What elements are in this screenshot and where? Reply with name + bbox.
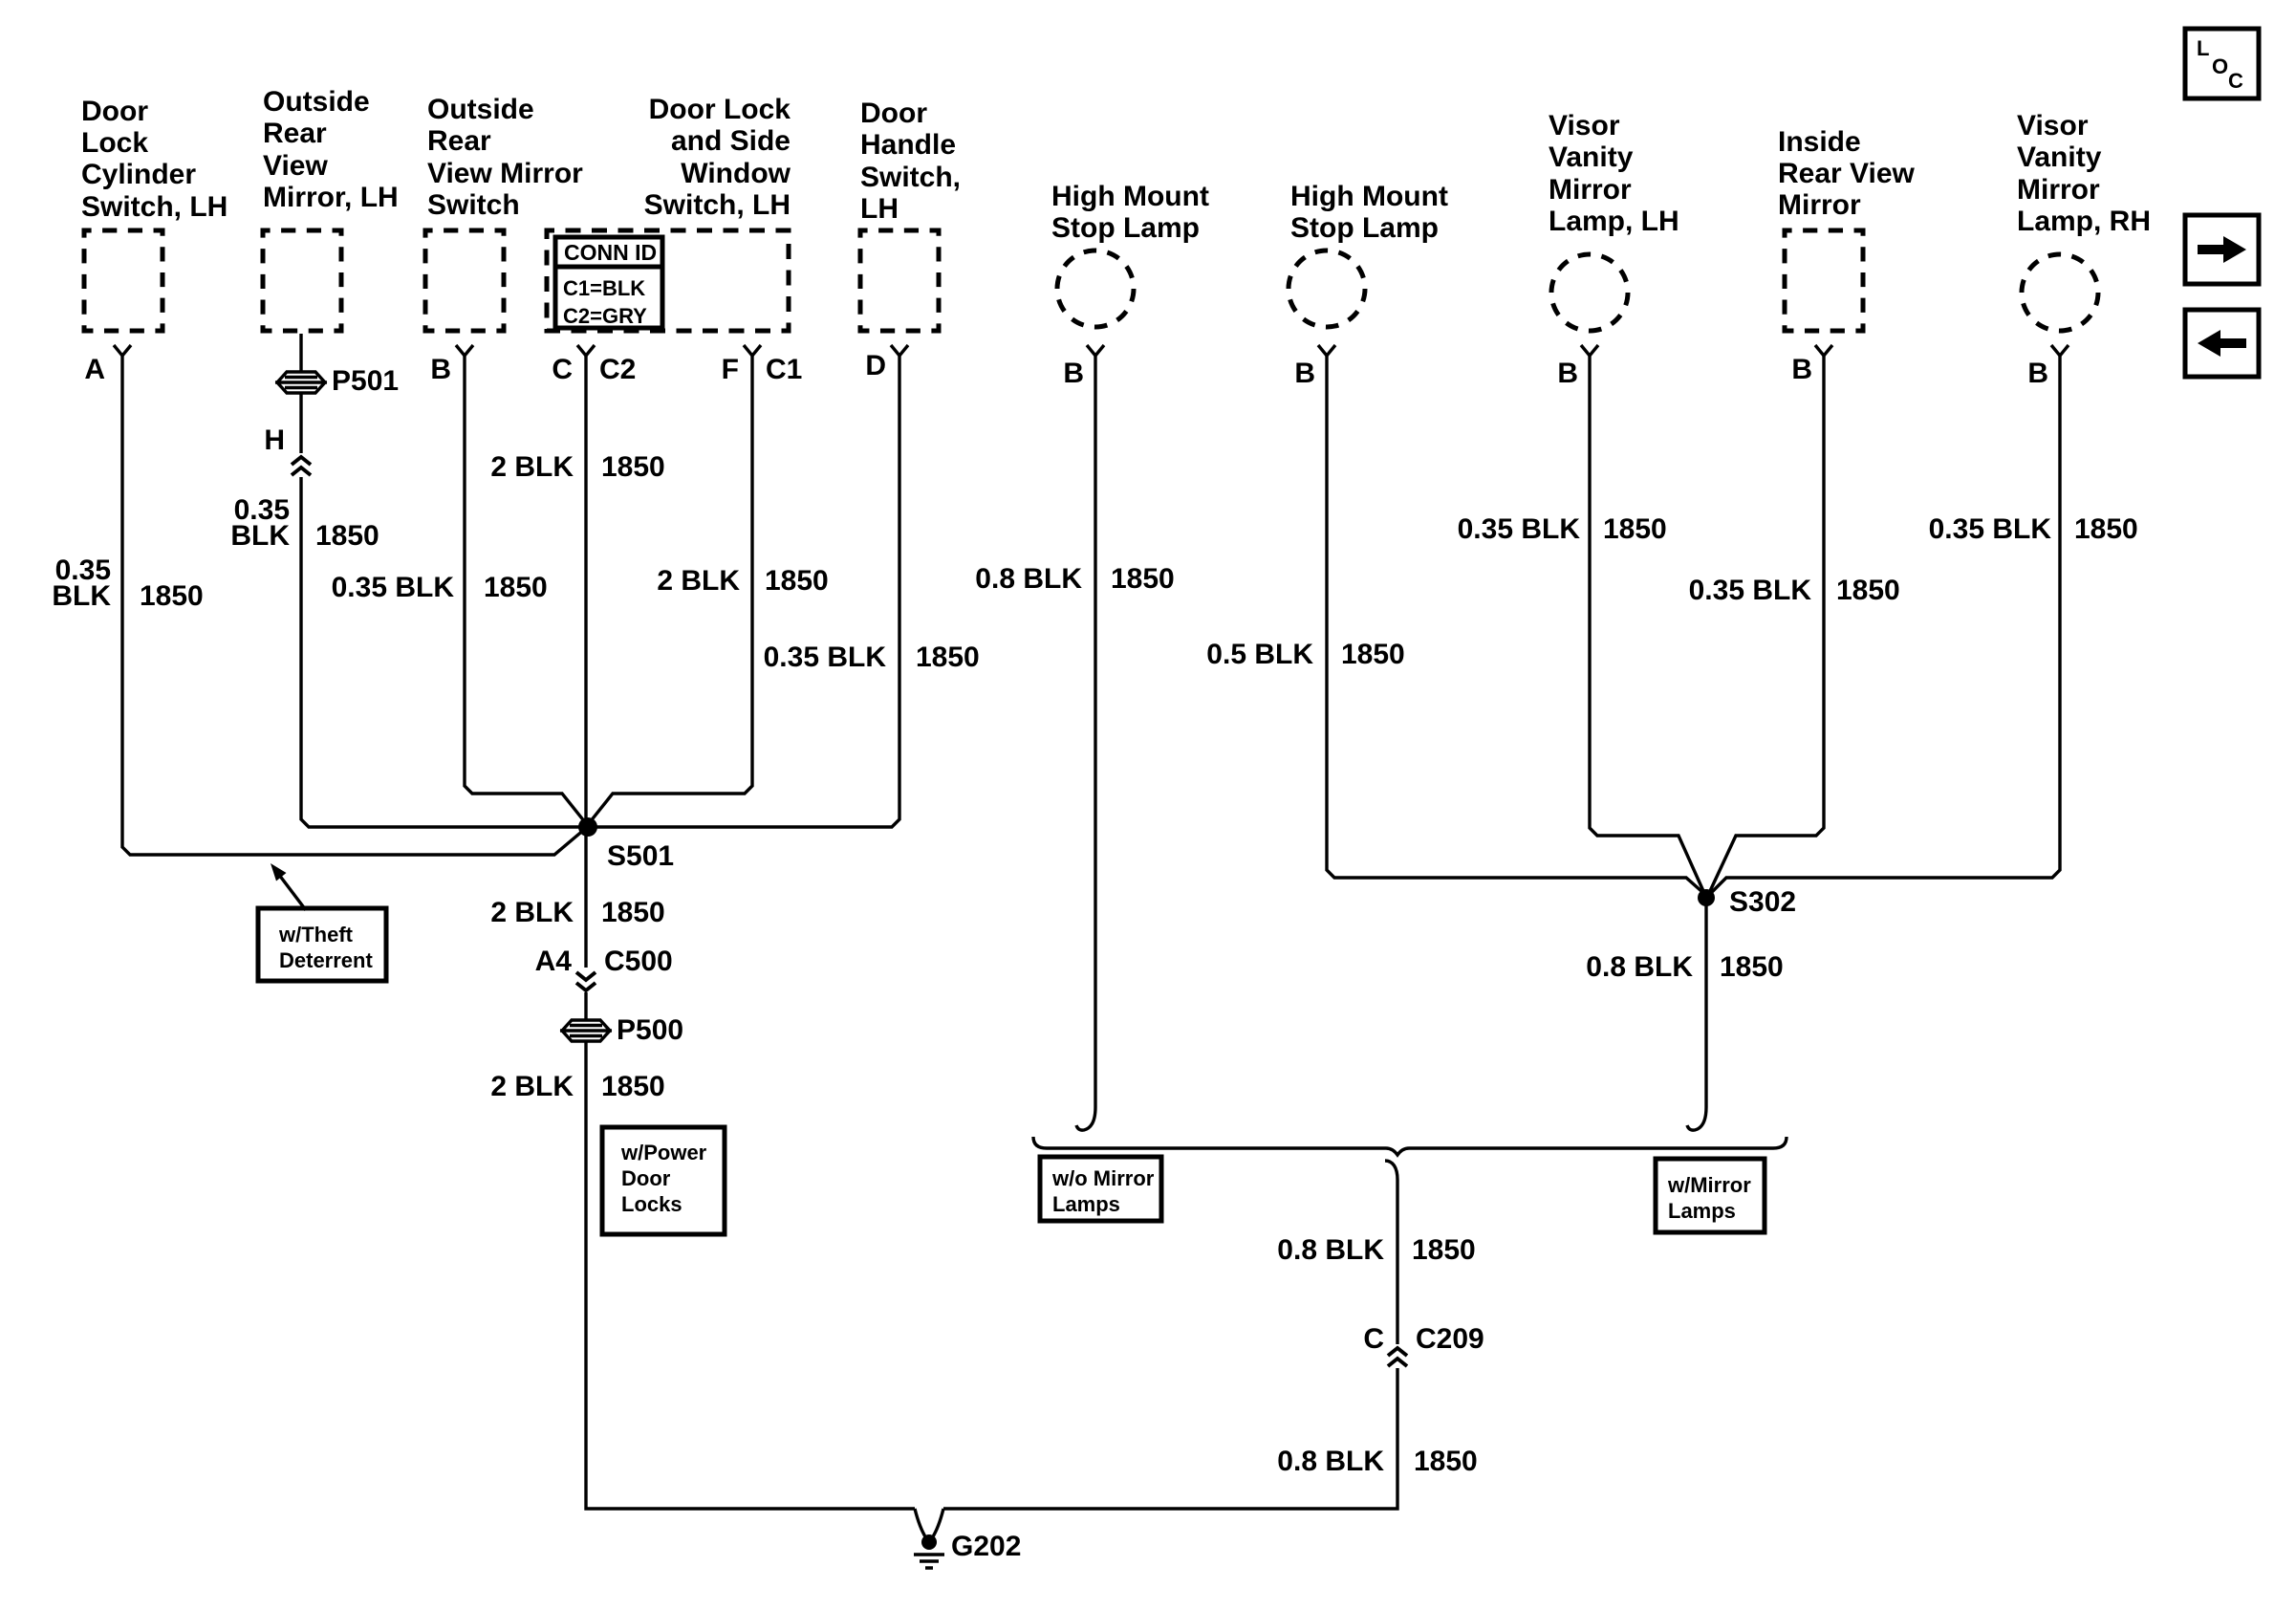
pin A fork	[114, 345, 131, 356]
svg-text:w/Theft: w/Theft	[278, 923, 354, 946]
svg-text:BLK: BLK	[230, 520, 290, 552]
svg-text:C2=GRY: C2=GRY	[563, 304, 647, 328]
svg-text:1850: 1850	[1341, 639, 1405, 670]
pin B fork	[2051, 345, 2069, 356]
svg-text:A: A	[84, 354, 105, 385]
pin B fork	[1087, 345, 1104, 356]
wire H: 0.35 BLK 1850 from Outside Rear View Mirror through P501 to S501	[299, 334, 302, 372]
svg-text:C: C	[2228, 69, 2243, 93]
svg-text:Switch: Switch	[427, 189, 520, 221]
svg-text:0.35 BLK: 0.35 BLK	[1458, 513, 1581, 545]
svg-text:B: B	[1557, 358, 1578, 389]
svg-text:1850: 1850	[601, 451, 665, 483]
splice junction S501	[578, 817, 597, 837]
svg-text:Deterrent: Deterrent	[279, 948, 373, 972]
inline connector P500 (grommet)	[560, 1020, 612, 1041]
lamp dashed circle: High Mount Stop Lamp (right)	[1289, 250, 1365, 327]
pin F fork (connector C1)	[744, 345, 761, 356]
svg-text:Rear: Rear	[263, 118, 327, 149]
svg-text:C2: C2	[599, 354, 636, 385]
svg-text:S501: S501	[607, 840, 674, 872]
note box: w/Theft Deterrent	[258, 908, 386, 981]
svg-text:Visor: Visor	[2017, 110, 2089, 141]
svg-text:1850: 1850	[916, 642, 980, 673]
svg-text:0.8 BLK: 0.8 BLK	[1277, 1446, 1384, 1477]
lamp dashed circle: High Mount Stop Lamp (left)	[1057, 250, 1134, 327]
svg-text:w/Power: w/Power	[620, 1141, 707, 1164]
svg-text:D: D	[865, 350, 886, 381]
ground G202 dot	[921, 1534, 937, 1550]
svg-text:Visor: Visor	[1549, 110, 1620, 141]
wire VRH: 0.35 BLK 1850 from Visor Vanity Mirror Lamp RH to S302	[1711, 356, 2060, 893]
svg-text:Lamp, LH: Lamp, LH	[1549, 206, 1679, 237]
ground symbol bars	[914, 1555, 944, 1568]
svg-text:2 BLK: 2 BLK	[490, 451, 574, 483]
wire from C209 down to ground run	[943, 1368, 1397, 1509]
wire H continues to S501	[301, 477, 586, 827]
svg-text:and Side: and Side	[671, 125, 791, 157]
page icon: arrow left box	[2185, 310, 2259, 377]
note box: w/o Mirror Lamps	[1040, 1157, 1161, 1221]
svg-text:Switch,: Switch,	[860, 162, 961, 193]
wire IRVM: 0.35 BLK 1850 from Inside Rear View Mirror to S302	[1710, 356, 1824, 891]
svg-text:1850: 1850	[315, 520, 379, 552]
svg-text:High Mount: High Mount	[1051, 181, 1209, 212]
svg-text:1850: 1850	[601, 897, 665, 928]
splice junction S302	[1698, 889, 1715, 906]
connector dashed box: Door Lock and Side Window Switch, LH	[547, 230, 789, 331]
svg-text:Door: Door	[621, 1166, 671, 1190]
ground tap at G202	[915, 1509, 926, 1538]
in-line connector C209 chevrons (up)	[1388, 1348, 1407, 1356]
svg-text:1850: 1850	[140, 580, 204, 612]
svg-text:View Mirror: View Mirror	[427, 158, 583, 189]
pin B fork	[1581, 345, 1598, 356]
svg-text:B: B	[1791, 354, 1812, 385]
svg-text:Switch, LH: Switch, LH	[644, 189, 791, 221]
pin C fork (connector C2)	[577, 345, 595, 356]
page icon: arrow right box	[2185, 215, 2259, 284]
svg-text:2 BLK: 2 BLK	[490, 1071, 574, 1102]
arrow from w/Theft Deterrent note to wire A	[279, 875, 306, 910]
svg-text:Mirror: Mirror	[1549, 174, 1632, 206]
svg-text:Handle: Handle	[860, 129, 956, 161]
svg-text:Outside: Outside	[263, 86, 370, 118]
svg-text:A4: A4	[535, 946, 573, 977]
svg-text:1850: 1850	[1836, 575, 1900, 606]
svg-text:0.35 BLK: 0.35 BLK	[1929, 513, 2052, 545]
pin D fork	[891, 345, 908, 356]
svg-text:1850: 1850	[1720, 951, 1784, 983]
in-line connector C500 chevrons (down)	[576, 972, 596, 980]
wire HM1: 0.8 BLK 1850 from High Mount Stop Lamp (left) down to option brace	[1076, 356, 1095, 1130]
svg-text:O: O	[2212, 54, 2228, 78]
svg-text:CONN ID: CONN ID	[564, 240, 657, 265]
svg-text:Door Lock: Door Lock	[649, 94, 791, 125]
svg-text:Lamp, RH: Lamp, RH	[2017, 206, 2151, 237]
svg-text:1850: 1850	[1603, 513, 1667, 545]
svg-text:0.35 BLK: 0.35 BLK	[332, 572, 455, 603]
lamp dashed circle: Visor Vanity Mirror Lamp, LH	[1551, 254, 1628, 331]
wire from P500 down to ground run	[586, 1042, 915, 1509]
svg-text:Lock: Lock	[81, 127, 148, 159]
svg-text:0.35 BLK: 0.35 BLK	[764, 642, 887, 673]
svg-text:1850: 1850	[484, 572, 548, 603]
svg-text:w/o Mirror: w/o Mirror	[1051, 1166, 1155, 1190]
wire C2: 2 BLK 1850 from pin C (C2) down through S501	[584, 356, 587, 968]
svg-text:0.5 BLK: 0.5 BLK	[1206, 639, 1313, 670]
svg-text:Mirror: Mirror	[1778, 189, 1861, 221]
connector dashed box: Door Handle Switch, LH	[860, 230, 939, 331]
svg-text:1850: 1850	[601, 1071, 665, 1102]
svg-text:Rear: Rear	[427, 125, 491, 157]
svg-text:Stop Lamp: Stop Lamp	[1290, 212, 1439, 244]
wire HM2: 0.5 BLK 1850 from High Mount Stop Lamp (right) to S302	[1327, 356, 1702, 892]
svg-text:C1=BLK: C1=BLK	[563, 276, 645, 300]
svg-text:0.8 BLK: 0.8 BLK	[1586, 951, 1693, 983]
svg-text:Vanity: Vanity	[1549, 141, 1634, 173]
svg-text:B: B	[2027, 358, 2048, 389]
svg-text:P501: P501	[332, 365, 399, 397]
wire VLH: 0.35 BLK 1850 from Visor Vanity Mirror Lamp LH to S302	[1590, 356, 1703, 891]
svg-text:Mirror, LH: Mirror, LH	[263, 182, 399, 213]
svg-text:C209: C209	[1416, 1323, 1484, 1355]
svg-text:0.8 BLK: 0.8 BLK	[975, 563, 1082, 595]
svg-text:LH: LH	[860, 193, 899, 225]
wire from S302 down to option brace: 0.8 BLK 1850	[1687, 903, 1706, 1130]
svg-text:1850: 1850	[1111, 563, 1175, 595]
svg-text:B: B	[1063, 358, 1084, 389]
svg-text:Window: Window	[681, 158, 791, 189]
svg-text:1850: 1850	[1412, 1234, 1476, 1266]
pin B fork	[1318, 345, 1335, 356]
connector dashed box: Outside Rear View Mirror, LH	[263, 230, 341, 331]
svg-text:G202: G202	[951, 1531, 1021, 1562]
svg-text:Outside: Outside	[427, 94, 534, 125]
note box: w/Mirror Lamps	[1656, 1159, 1765, 1232]
connector dashed box: Inside Rear View Mirror	[1785, 230, 1863, 331]
wire A: 0.35 BLK 1850 from Door Lock Cylinder Switch pin A to S501	[122, 356, 585, 855]
svg-text:Mirror: Mirror	[2017, 174, 2100, 206]
wire from C500 to P500	[584, 992, 587, 1019]
svg-text:Locks: Locks	[621, 1192, 682, 1216]
svg-text:S302: S302	[1729, 886, 1796, 918]
note box: w/Power Door Locks	[602, 1127, 725, 1234]
svg-text:H: H	[264, 424, 285, 456]
svg-text:w/Mirror: w/Mirror	[1667, 1173, 1751, 1197]
svg-text:L: L	[2197, 36, 2209, 60]
pin B fork	[1815, 345, 1832, 356]
svg-text:Door: Door	[860, 98, 927, 129]
svg-text:P500: P500	[617, 1014, 683, 1046]
svg-text:0.8 BLK: 0.8 BLK	[1277, 1234, 1384, 1266]
svg-text:Lamps: Lamps	[1668, 1199, 1736, 1223]
svg-text:BLK: BLK	[52, 580, 111, 612]
svg-text:View: View	[263, 150, 328, 182]
connector dashed box: Outside Rear View Mirror Switch	[425, 230, 504, 331]
svg-text:Switch, LH: Switch, LH	[81, 191, 227, 223]
svg-text:0.35 BLK: 0.35 BLK	[1689, 575, 1812, 606]
wire D: 0.35 BLK 1850 from Door Handle Switch pin D to S501	[588, 356, 899, 827]
pin B fork	[456, 345, 473, 356]
svg-text:C: C	[552, 354, 573, 385]
svg-text:Cylinder: Cylinder	[81, 159, 196, 190]
svg-text:Rear View: Rear View	[1778, 158, 1916, 189]
wire below brace: 0.8 BLK 1850 to C209 and ground	[1385, 1161, 1397, 1344]
connector dashed box: Door Lock Cylinder Switch, LH	[84, 230, 162, 331]
svg-text:Stop Lamp: Stop Lamp	[1051, 212, 1200, 244]
svg-text:1850: 1850	[2074, 513, 2138, 545]
lamp dashed circle: Visor Vanity Mirror Lamp, RH	[2022, 254, 2098, 331]
option brace (curly bracket)	[1033, 1137, 1787, 1155]
svg-text:Lamps: Lamps	[1052, 1192, 1120, 1216]
page icon: LOC box	[2185, 29, 2259, 98]
harness pass-through chevrons at H	[292, 457, 311, 465]
svg-text:C500: C500	[604, 946, 673, 977]
wire F: 2 BLK 1850 from pin F (C1) to S501	[590, 356, 752, 822]
svg-text:B: B	[1294, 358, 1315, 389]
svg-text:High Mount: High Mount	[1290, 181, 1448, 212]
svg-text:2 BLK: 2 BLK	[657, 565, 740, 597]
inline connector P501 (grommet)	[275, 372, 327, 393]
wire B: 0.35 BLK 1850 from Outside Rear View Mirror Switch pin B to S501	[465, 356, 585, 822]
svg-text:C: C	[1363, 1323, 1384, 1355]
svg-text:C1: C1	[766, 354, 802, 385]
svg-text:Vanity: Vanity	[2017, 141, 2102, 173]
CONN ID table box	[555, 237, 662, 328]
svg-text:1850: 1850	[1414, 1446, 1478, 1477]
svg-text:1850: 1850	[765, 565, 829, 597]
svg-text:2 BLK: 2 BLK	[490, 897, 574, 928]
svg-text:Inside: Inside	[1778, 126, 1861, 158]
svg-text:B: B	[430, 354, 451, 385]
svg-text:Door: Door	[81, 96, 148, 127]
svg-text:F: F	[722, 354, 739, 385]
